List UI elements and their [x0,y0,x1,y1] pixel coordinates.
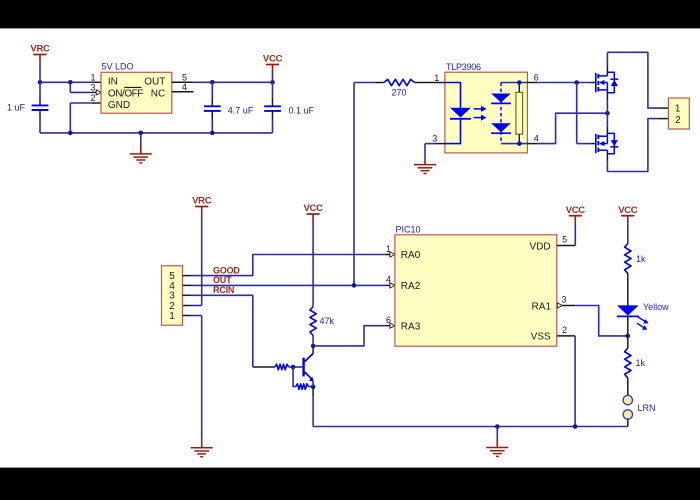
svg-text:TLP3906: TLP3906 [446,62,481,72]
pin name VDD [529,241,550,252]
wire Q2 drain up to junction [606,113,608,133]
wire GOOD net to PIC RA0 [183,252,395,276]
wire top rail to connector pin 1 [607,52,668,108]
wire bottom rail to connector pin 2 [607,119,668,172]
label 47k [320,316,335,326]
optocoupler U2 box TLP3906 [445,72,528,153]
wire R3 to base [289,366,303,368]
label 1k (R6) [636,358,646,368]
power flag VCC (LED) [618,205,638,224]
svg-text:VCC: VCC [263,54,283,65]
wire regulator ground rail [40,132,273,134]
power flag VCC (47k) [304,203,324,222]
label 4.7 uF [228,105,254,115]
net label GOOD [213,265,240,275]
svg-text:RA3: RA3 [401,321,421,332]
node rail/ground junction [139,131,144,136]
wire R5 to LED [627,274,629,306]
node LED/RA1 junction [626,334,631,339]
node VRC/C1 junction [38,80,43,85]
svg-text:Yellow: Yellow [643,302,669,312]
pin number 1 (J1) [169,311,175,322]
svg-text:270: 270 [391,88,406,98]
stub LDO pin 4 NC [172,91,194,93]
wire PIC RA1 to LED node [557,303,628,336]
node rail/VSS junction [573,424,578,429]
svg-text:OUT: OUT [213,275,232,285]
svg-text:2: 2 [91,93,96,103]
power flag VRC (connector) [192,196,212,215]
pin number 2 (J2) [675,115,681,126]
svg-text:4: 4 [182,82,187,92]
wire gate tee down to Q2 gate [577,83,596,144]
internal resistor of TLP [516,83,523,144]
wire LDO pin 5 OUT to VCC rail [172,81,273,83]
optocoupler emission arrows [474,106,487,121]
wire TLP pin 4 to MOSFET sources [527,113,607,143]
svg-text:5V LDO: 5V LDO [102,61,134,71]
wire PIC VSS down to ground rail [557,336,575,427]
pin name NC [151,89,165,100]
ground (regulator rail) [130,133,152,163]
svg-text:1: 1 [169,311,175,322]
svg-text:6: 6 [534,72,539,82]
wire Q2 source down [606,154,608,172]
svg-text:VDD: VDD [529,241,550,252]
pad LRN top [623,395,632,404]
wire R6 to LRN pads [627,378,629,395]
ground (TLP pin 3) [414,144,436,174]
transistor Q3 NPN [304,346,314,382]
wire OUT net to PIC RA2 [183,283,395,288]
wire to LDO pin 3 ON/OFF [70,82,101,95]
label 5V LDO [102,61,134,71]
power flag VCC (PIC VDD) [566,205,586,224]
wire VRC down to input net [39,63,41,83]
pin number 4 (J1) [169,281,175,292]
LED emission arrows [637,317,649,330]
power flag VCC (over C3) [263,54,283,73]
svg-text:NC: NC [151,89,165,100]
svg-text:6: 6 [386,315,391,325]
wire R1 to TLP pin 1 [415,82,445,84]
svg-text:1: 1 [386,244,391,254]
svg-text:47k: 47k [320,316,335,326]
node pin1/pin3 tap junction [68,80,73,85]
net label OUT [213,275,232,285]
svg-text:VSS: VSS [531,332,551,343]
pin name RA3 [401,321,421,332]
resistor R2 47k [310,307,316,336]
LED D2 yellow [617,305,639,316]
pin name ON/OFF with overline [108,87,143,99]
capacitor C2 4.7 uF [204,82,221,133]
wire bottom ground rail [313,426,628,428]
node MOSFET source junction [605,111,610,116]
pin number 1 (TLP anode) [434,73,439,83]
wire LED to RA1 node [627,316,629,336]
capacitor C3 0.1 uF [264,82,281,133]
wire RA2 net up to R1 [354,83,384,286]
node rail/pin2 junction [68,131,73,136]
node OUT/R1 net junction [352,283,357,288]
label 1k (R5) [636,254,646,264]
pin number 3 (J1) [169,291,175,302]
transistor Q2 bottom MOSFET [596,133,619,153]
svg-text:3: 3 [91,83,96,93]
wire TLP bottom inner [501,143,527,145]
pin name OUT [144,76,165,87]
wire R2 to collector node [312,336,314,346]
label 1 uF [7,102,26,112]
pin number 2 (LDO GND) [91,93,96,103]
pin name RA1 [532,301,552,312]
ground (bottom rail) [486,427,508,457]
node rail/C2 junction [210,131,215,136]
pin number 3 (TLP cathode) [432,133,437,143]
svg-text:RA0: RA0 [401,250,421,261]
svg-text:VRC: VRC [30,44,50,55]
svg-text:RA1: RA1 [532,301,552,312]
microcontroller U3 box PIC10 [395,235,557,346]
pin number 4 (PIC RA2) [386,275,391,285]
svg-text:VRC: VRC [192,196,212,207]
net label RCIN [213,285,234,295]
wire LRN pad to ground rail [627,419,629,426]
wire collector node to PIC RA3 [313,323,395,346]
svg-text:RCIN: RCIN [213,285,234,295]
svg-text:VCC: VCC [618,205,638,216]
svg-text:0.1 uF: 0.1 uF [289,105,315,115]
svg-text:RA2: RA2 [401,281,421,292]
wire PIC VDD to VCC [557,224,576,246]
pin name RA0 [401,250,421,261]
LED input of optocoupler [445,83,471,144]
svg-text:1k: 1k [636,358,646,368]
svg-text:1: 1 [91,73,96,83]
svg-text:2: 2 [675,115,681,126]
node rail/ground junction (bottom) [495,424,500,429]
photodiode stack (dashed) [491,83,511,144]
svg-text:1: 1 [675,103,681,114]
svg-text:LRN: LRN [638,403,656,413]
svg-text:GOOD: GOOD [213,265,240,275]
label Yellow [643,302,669,312]
wire VCC flag stem [272,73,274,83]
wire Q1 drain up [606,52,608,72]
connector J1 box [162,266,183,325]
capacitor C1 1 uF [32,82,49,133]
wire TLP top inner [501,82,527,84]
svg-text:4: 4 [386,275,391,285]
resistor R5 1k [625,244,631,274]
node gate tee junction [574,80,579,85]
wire TLP pin 6 to gates [527,82,595,84]
node OUT/C3 junction [270,80,275,85]
wire VCC to R5 [627,224,629,244]
svg-text:IN: IN [108,76,118,87]
resistor R3 base [275,364,289,370]
pin number 5 (PIC VDD) [562,234,567,244]
label 0.1 uF [289,105,315,115]
wire RA1 node to R6 [627,336,629,348]
pin number 4 (LDO NC) [182,82,187,92]
svg-text:VCC: VCC [304,203,324,214]
resistor R6 1k [625,348,631,378]
wire VCC to R2 [312,222,314,307]
pin number 1 (LDO IN) [91,73,96,83]
pin name VSS [531,332,551,343]
wire TLP pin 3 to ground [425,143,445,145]
svg-text:OUT: OUT [144,76,165,87]
power flag VRC (input rail, top left) [30,44,50,63]
label TLP3906 [446,62,481,72]
svg-text:PIC10: PIC10 [396,224,421,234]
svg-text:1k: 1k [636,254,646,264]
pin number 2 (PIC VSS) [562,325,567,335]
wire Q1 source down to junction [606,93,608,114]
pin name GND [108,100,130,111]
svg-text:2: 2 [562,325,567,335]
svg-text:4.7 uF: 4.7 uF [228,105,254,115]
svg-text:1: 1 [434,73,439,83]
bottom letterbox bar [0,468,700,500]
svg-text:4: 4 [534,133,539,143]
svg-text:3: 3 [432,133,437,143]
wire emitter down to ground rail [312,381,314,427]
pin number 6 (PIC RA3) [386,315,391,325]
label LRN [638,403,656,413]
pin number 4 (TLP) [534,133,539,143]
svg-text:ON/OFF: ON/OFF [108,89,143,100]
node collector junction [311,344,316,349]
regulator U1 box 5V LDO [101,72,172,113]
svg-text:3: 3 [561,295,566,305]
transistor Q1 top MOSFET [596,72,619,92]
node TLP pin4 inner junction [517,141,522,146]
pad LRN bottom [623,410,632,419]
connector J2 box [668,98,689,129]
pin number 1 (J2) [675,103,681,114]
pin number 5 (LDO OUT) [182,73,187,83]
svg-text:1 uF: 1 uF [7,102,26,112]
wire RCIN net down to base resistor [183,295,275,367]
ground (connector pin 1) [191,427,213,457]
pin number 6 (TLP) [534,72,539,82]
pin number 3 (LDO ON/OFF) [91,83,96,93]
pin name RA2 [401,281,421,292]
node base junction [291,365,296,370]
top letterbox bar [0,0,700,28]
wire VRC to connector pin 2 [183,215,202,306]
wire input net to LDO pin 1 [40,81,101,83]
pin number 1 (PIC RA0) [386,244,391,254]
node TLP pin6 inner junction [517,80,522,85]
svg-text:GND: GND [108,100,130,111]
svg-text:VCC: VCC [566,205,586,216]
pin number 2 (J1) [169,301,175,312]
pin number 3 (PIC RA1) [561,295,566,305]
resistor R1 270 [384,79,415,85]
wire LDO pin 2 GND to bottom rail [70,103,101,133]
label PIC10 [396,224,421,234]
svg-text:5: 5 [562,234,567,244]
wire connector pin 1 to ground [183,316,202,427]
node emitter junction [311,385,316,390]
resistor R4 base-emitter [293,367,313,389]
pin number 5 (J1) [169,271,175,282]
pin name IN [108,76,118,87]
label 270 [391,88,406,98]
node OUT/C2 junction [210,80,215,85]
